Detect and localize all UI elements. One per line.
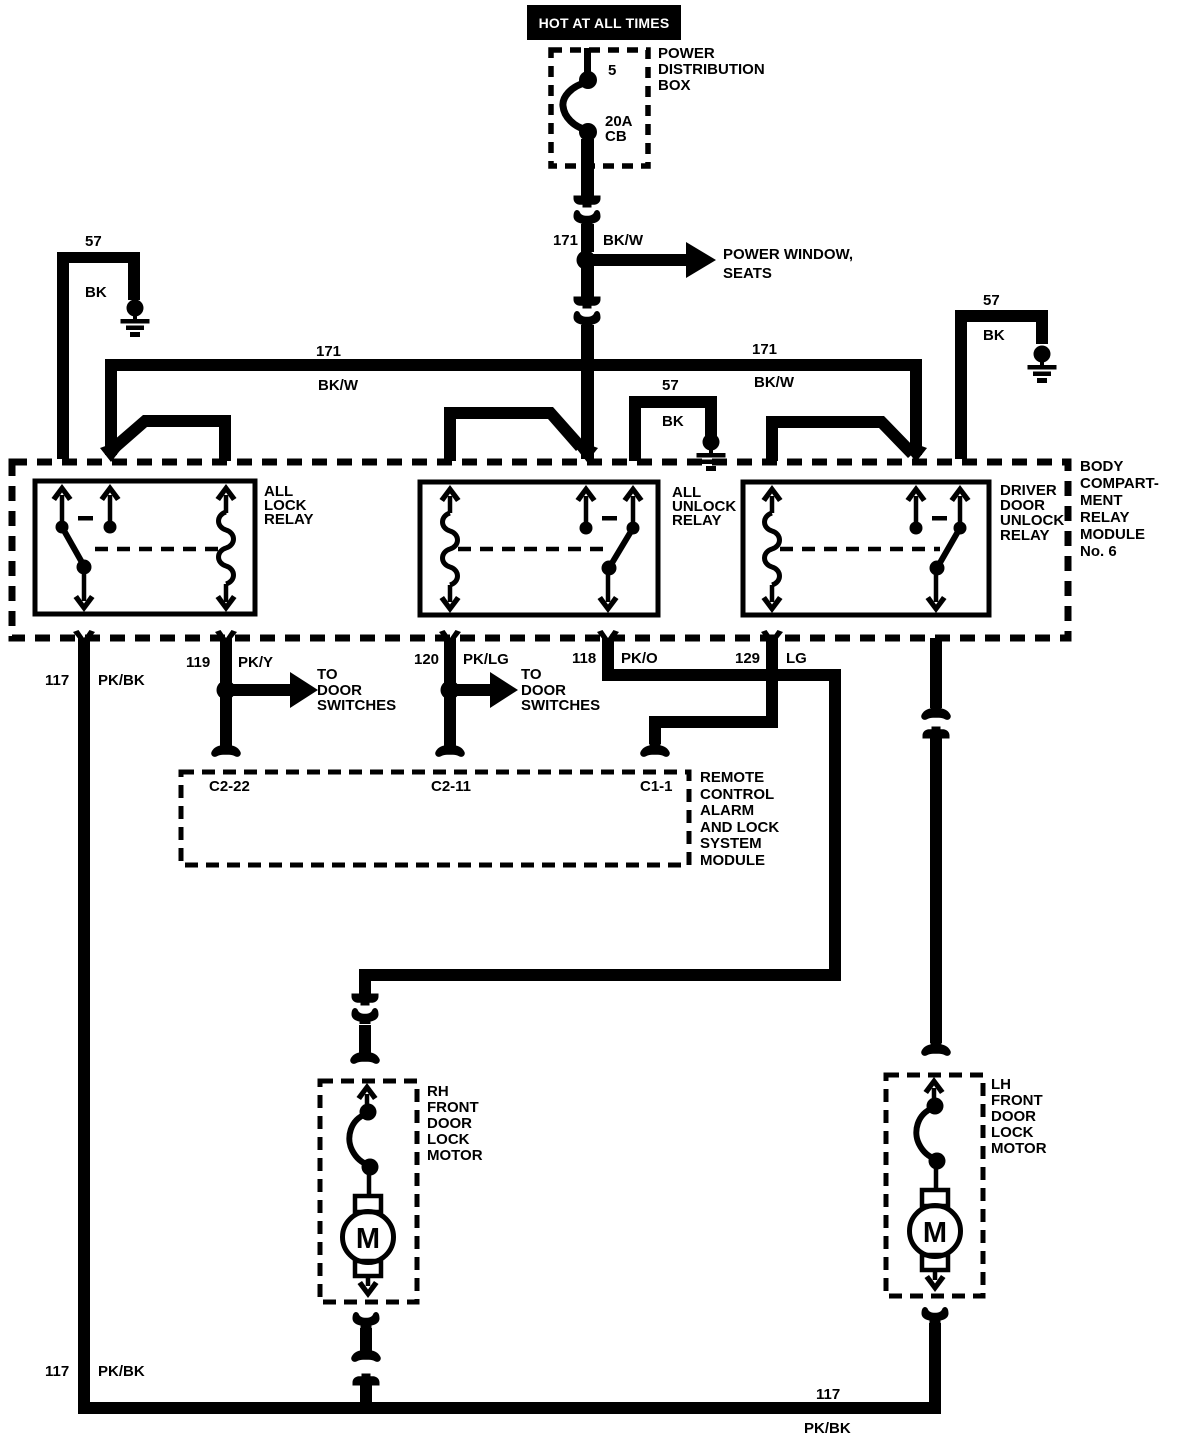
branch wire to relay3 coil [766,416,917,461]
svg-text:120: 120 [414,651,439,668]
svg-text:BK/W: BK/W [754,374,795,391]
terminal bell LH motor [921,1041,951,1056]
label RH front door lock motor [427,1083,483,1164]
ground symbol left [121,300,150,338]
svg-text:ALARM: ALARM [700,802,754,819]
wire 118 horizontal to RH motor [359,969,841,994]
node junction 120 [441,681,460,700]
svg-text:TO: TO [521,666,542,683]
relay K3 common stem [934,568,939,602]
svg-text:FRONT: FRONT [991,1092,1043,1109]
svg-text:CONTROL: CONTROL [700,786,774,803]
svg-text:MODULE: MODULE [700,852,765,869]
relay K1 common stem [82,567,87,601]
wire bus centre drop [581,365,594,459]
wire relay3 to LH motor upper [930,638,942,708]
svg-text:SYSTEM: SYSTEM [700,835,762,852]
svg-text:171: 171 [316,343,341,360]
arrow to power window seats [592,242,853,282]
svg-text:SEATS: SEATS [723,265,772,282]
terminal bell C1-1 [640,742,670,757]
svg-text:RELAY: RELAY [264,511,313,528]
node junction 119 [217,681,236,700]
svg-text:MOTOR: MOTOR [427,1147,483,1164]
relay K1 armature [62,527,84,566]
wire 119 PK/Y [220,638,232,746]
wire below power distribution box [581,139,594,197]
svg-text:DISTRIBUTION: DISTRIBUTION [658,61,765,78]
svg-text:57: 57 [85,233,102,250]
svg-text:LH: LH [991,1076,1011,1093]
label LH front door lock motor [991,1076,1047,1157]
relay K2 contact 30 (power side) [576,485,597,502]
svg-text:M: M [356,1223,380,1255]
inline connector halves LH [921,705,951,720]
arrow to door switches left [232,666,396,714]
svg-text:117: 117 [816,1386,840,1403]
wire relay3 to LH motor lower [930,738,942,1043]
branch wire to relay2 coil [444,407,585,461]
svg-text:CB: CB [605,128,627,145]
relay K1 contact link dash [78,516,93,521]
wire 171 upper [581,224,594,252]
exit arrow 118 [597,630,619,646]
relay K1 control dashed link [95,547,220,552]
relay K1 contact 30 (power side) [100,484,121,501]
relay K3 coil [762,485,783,502]
circuit breaker 20A CB [563,62,633,145]
wire 129 LG elbow to C1-1 [649,638,778,744]
svg-text:MOTOR: MOTOR [991,1140,1047,1157]
terminal bell C2-22 [211,742,241,757]
exit arrow 119 [215,630,237,646]
RH motor circuit breaker [360,1104,377,1121]
wire fuse feed [584,48,591,79]
wire bus left drop to relay1 [105,365,117,455]
svg-text:PK/O: PK/O [621,650,658,667]
svg-text:C1-1: C1-1 [640,778,673,795]
svg-text:C2-11: C2-11 [431,778,471,795]
svg-text:RELAY: RELAY [1080,509,1129,526]
svg-text:No. 6: No. 6 [1080,543,1117,560]
exit arrow 117 [73,630,95,646]
svg-text:HOT AT ALL TIMES: HOT AT ALL TIMES [539,15,670,31]
relay K3 armature [937,528,960,568]
inline connector halves RH feed 1 [352,994,379,1006]
svg-text:RELAY: RELAY [1000,527,1049,544]
body compartment relay module No.6 (dashed box) [12,462,1068,638]
LH motor pin arrow up [924,1077,945,1094]
svg-text:TO: TO [317,666,338,683]
terminal bell RH motor [350,1049,380,1064]
inline connector halves [574,297,601,309]
relay K2 control dashed link [458,547,612,552]
svg-text:FRONT: FRONT [427,1099,479,1116]
svg-text:5: 5 [608,62,616,79]
svg-text:BOX: BOX [658,77,691,94]
remote control alarm and lock system module (dashed box) [181,772,689,865]
svg-text:PK/LG: PK/LG [463,651,509,668]
LH motor M2 [910,1190,961,1292]
svg-text:129: 129 [735,650,760,667]
terminal bell C2-11 [435,742,465,757]
svg-text:LOCK: LOCK [991,1124,1034,1141]
svg-text:REMOTE: REMOTE [700,769,764,786]
svg-text:POWER: POWER [658,45,715,62]
wire 120 PK/LG [444,638,456,746]
relay K1 contact 87 (ground side) [52,484,73,501]
RH motor M1 [343,1196,394,1298]
relay K3 contact 30 (power side) [906,485,927,502]
svg-text:117: 117 [45,1363,69,1380]
svg-text:DOOR: DOOR [427,1115,472,1132]
relay K2 common stem [606,568,611,602]
bottom bus 117 PK/BK [78,1402,929,1414]
ground 57 BK top right [955,292,1048,459]
connector below LH motor [922,1307,949,1323]
arrow to door switches right [456,666,600,714]
bus 171 BK/W horizontal [105,359,922,371]
svg-text:PK/BK: PK/BK [804,1420,851,1437]
svg-text:DOOR: DOOR [991,1108,1036,1125]
svg-text:119: 119 [186,654,210,671]
RH front door lock motor box (dashed) [320,1081,417,1302]
svg-text:RELAY: RELAY [672,512,721,529]
junction node [577,251,596,270]
connector below RH motor [353,1312,380,1328]
exit arrow 129 [761,630,783,646]
relay K2 contact link dash [602,516,617,521]
relay K1 all lock relay box [35,481,255,614]
relay K3 contact 87 (ground side) [950,485,971,502]
svg-text:BK: BK [85,284,107,301]
branch wire to relay1 coil [106,415,231,461]
svg-text:171: 171 [752,341,777,358]
wire into bus [581,325,594,365]
svg-text:57: 57 [983,292,1000,309]
svg-text:171: 171 [553,232,578,249]
svg-text:BK/W: BK/W [603,232,644,249]
ground symbol middle [697,434,726,472]
label remote control alarm and lock system module [700,769,779,869]
ground 57 BK top left [57,233,140,459]
svg-text:PK/BK: PK/BK [98,1363,145,1380]
entry arrow relay2 power [576,446,598,462]
hot-at-all-times banner [527,5,681,40]
svg-text:AND LOCK: AND LOCK [700,819,779,836]
svg-text:BK/W: BK/W [318,377,359,394]
svg-text:PK/BK: PK/BK [98,672,145,689]
svg-text:SWITCHES: SWITCHES [317,697,396,714]
ground 57 BK middle [629,377,717,461]
wire 117 PK/BK left vertical [78,638,90,1414]
relay K3 contact link dash [932,516,947,521]
label body compartment relay module [1080,458,1159,560]
svg-text:LOCK: LOCK [427,1131,470,1148]
entry arrow relay3 power [905,446,927,462]
svg-text:LG: LG [786,650,807,667]
wire LH motor to ground bus [929,1323,941,1414]
svg-text:PK/Y: PK/Y [238,654,273,671]
relay K2 contact 87 (ground side) [623,485,644,502]
wire below junction [581,266,594,297]
relay K3 driver door unlock relay box [743,482,989,615]
ground symbol right [1028,346,1057,384]
svg-text:MENT: MENT [1080,492,1123,509]
wire bus right drop to relay3 [910,365,922,455]
exit arrow 120 [439,630,461,646]
svg-text:SWITCHES: SWITCHES [521,697,600,714]
LH front door lock motor box (dashed) [886,1075,983,1296]
svg-text:C2-22: C2-22 [209,778,250,795]
svg-text:118: 118 [572,650,596,667]
inline connector halves [574,196,601,208]
LH motor circuit breaker [927,1098,944,1115]
power distribution box (dashed) [551,50,648,166]
RH motor pin arrow up [357,1083,378,1100]
wire 118 PK/O elbow right [602,638,841,981]
relay K2 coil [440,485,461,502]
relay K1 coil [216,484,237,501]
relay K2 armature [609,528,633,568]
svg-text:POWER WINDOW,: POWER WINDOW, [723,246,853,263]
svg-text:BODY: BODY [1080,458,1123,475]
relay K2 all unlock relay box [420,482,658,615]
relay K3 control dashed link [780,547,940,552]
svg-text:BK: BK [983,327,1005,344]
svg-text:M: M [923,1217,947,1249]
svg-text:57: 57 [662,377,679,394]
wire RH motor to ground bus [360,1385,372,1408]
entry arrow relay1 power [100,446,122,462]
svg-text:BK: BK [662,413,684,430]
svg-text:RH: RH [427,1083,449,1100]
svg-text:117: 117 [45,672,69,689]
svg-text:COMPART-: COMPART- [1080,475,1159,492]
wire RH feed [359,1025,371,1055]
svg-text:MODULE: MODULE [1080,526,1145,543]
